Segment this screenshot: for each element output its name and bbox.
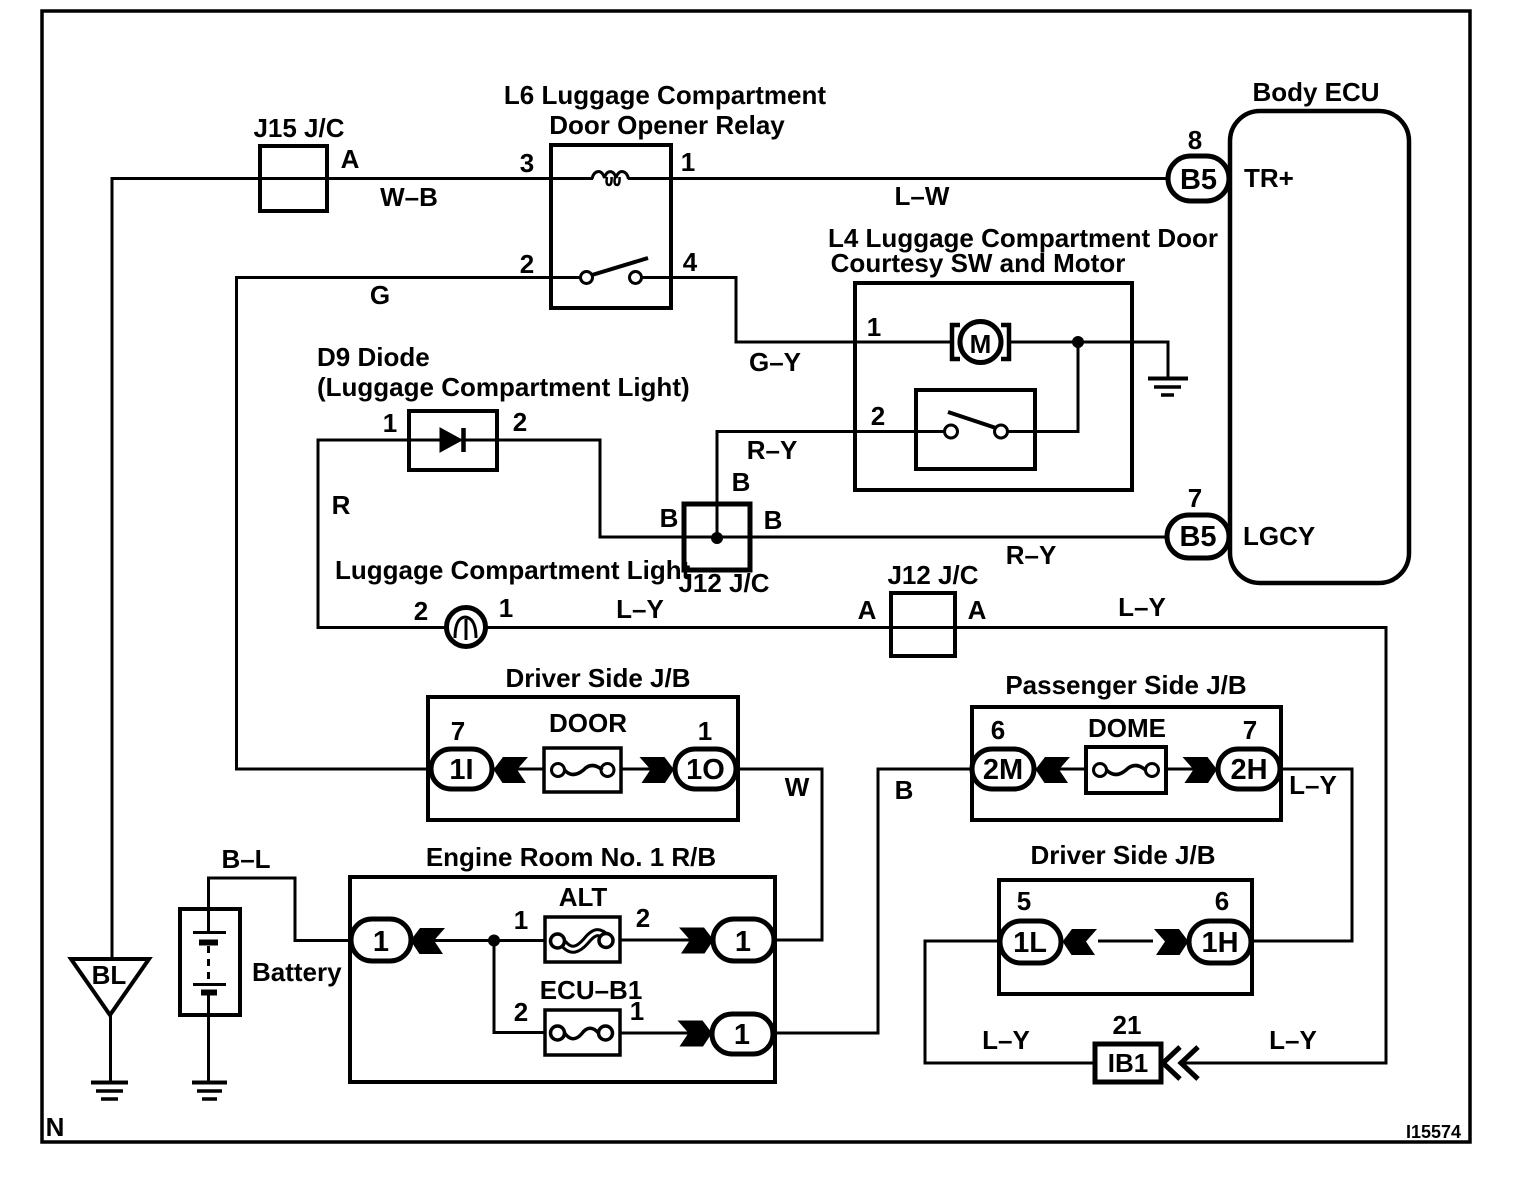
fuse DOME symbol <box>1094 764 1107 777</box>
svg-text:Battery: Battery <box>252 957 342 987</box>
wire inside J/B left <box>492 768 544 771</box>
svg-text:ECU–B1: ECU–B1 <box>540 975 643 1005</box>
svg-text:B: B <box>660 503 679 533</box>
fuse ALT symbol <box>563 933 607 950</box>
svg-text:Body ECU: Body ECU <box>1252 77 1379 107</box>
svg-text:G: G <box>370 280 390 310</box>
wire from junction down to courtesy switch <box>1077 342 1080 433</box>
wire from diode pin 2 <box>497 439 602 442</box>
motor M1 <box>960 322 1001 363</box>
svg-text:D9 Diode: D9 Diode <box>317 342 430 372</box>
svg-text:L–Y: L–Y <box>982 1025 1030 1055</box>
wire 1L to IB1 <box>927 940 1001 943</box>
component L4 Luggage Compartment Door Courtesy SW and Motor box <box>855 283 1132 490</box>
svg-text:B5: B5 <box>1180 164 1217 196</box>
svg-text:1: 1 <box>867 312 881 342</box>
relay coil <box>592 172 629 179</box>
svg-text:1: 1 <box>734 1019 750 1051</box>
junction J12 J/C (A) <box>891 593 955 656</box>
svg-text:2: 2 <box>513 407 527 437</box>
diode D9 box <box>409 411 497 470</box>
wire 1H to riser <box>1251 940 1354 943</box>
svg-text:5: 5 <box>1017 886 1031 916</box>
svg-text:M: M <box>970 329 992 359</box>
svg-text:B: B <box>764 505 783 535</box>
wire from arrow to ALT fuse <box>434 939 545 942</box>
connector oval B5 pin 8 TR+ <box>1168 156 1229 201</box>
courtesy switch box <box>916 390 1035 469</box>
svg-text:1: 1 <box>630 996 644 1026</box>
wire to IB1 <box>925 1062 1095 1065</box>
wire L-Y right riser down to IB1 <box>1385 626 1388 1065</box>
svg-text:Door Opener Relay: Door Opener Relay <box>549 110 785 140</box>
svg-text:2M: 2M <box>983 754 1023 786</box>
connector oval 1 ALT output <box>713 919 774 961</box>
svg-text:B: B <box>895 775 914 805</box>
svg-text:1: 1 <box>681 147 695 177</box>
svg-text:4: 4 <box>683 247 698 277</box>
svg-text:A: A <box>968 595 987 625</box>
node junction dot in J12 J/C <box>711 532 723 544</box>
wire BL apex to ground <box>109 1015 112 1081</box>
arrow right at 1O <box>640 757 675 783</box>
arrow left at 2M <box>1036 757 1071 783</box>
svg-text:21: 21 <box>1113 1010 1142 1040</box>
svg-text:LGCY: LGCY <box>1243 521 1315 551</box>
svg-text:R: R <box>332 490 351 520</box>
node junction dot motor/switch <box>1072 336 1084 348</box>
svg-text:L–Y: L–Y <box>1118 592 1166 622</box>
svg-text:Luggage Compartment Light: Luggage Compartment Light <box>335 555 691 585</box>
svg-text:2: 2 <box>514 997 528 1027</box>
svg-text:Driver Side J/B: Driver Side J/B <box>1031 840 1216 870</box>
arrow left at 1I <box>494 757 529 783</box>
fuse ALT box <box>545 917 620 962</box>
svg-text:1: 1 <box>698 716 712 746</box>
svg-text:B5: B5 <box>1179 521 1216 553</box>
wire inside passenger J/B left <box>1034 768 1086 771</box>
wire G horizontal to relay pin 2 <box>235 276 551 279</box>
svg-text:A: A <box>858 595 877 625</box>
svg-text:ALT: ALT <box>559 882 608 912</box>
svg-text:J12 J/C: J12 J/C <box>678 568 769 598</box>
svg-text:Driver Side J/B: Driver Side J/B <box>506 663 691 693</box>
wire into 1I <box>235 768 433 771</box>
wire G riser down to Driver Side J/B pin 7 <box>235 276 238 771</box>
junction block Passenger Side J/B box <box>972 707 1281 820</box>
battery <box>180 909 240 1015</box>
svg-text:J15 J/C: J15 J/C <box>253 113 344 143</box>
wire between arrows <box>1098 940 1153 943</box>
wire B-L battery to engine room <box>207 880 210 934</box>
svg-text:DOME: DOME <box>1088 713 1166 743</box>
ground symbol at BL <box>91 1081 128 1085</box>
diode D9 symbol <box>409 439 497 442</box>
courtesy switch contact circles <box>945 425 958 438</box>
arrow left at engine room input <box>411 928 446 954</box>
svg-text:2: 2 <box>414 596 428 626</box>
wire ECU-B1 to output <box>620 1032 712 1035</box>
arrow right at ALT output <box>679 928 714 954</box>
relay switch wire stubs <box>551 276 581 279</box>
svg-text:1O: 1O <box>686 754 725 786</box>
svg-text:2: 2 <box>520 249 534 279</box>
svg-text:1: 1 <box>735 926 751 958</box>
svg-text:1: 1 <box>499 593 513 623</box>
wire L-W from relay pin 1 to Body ECU TR+ <box>671 177 1168 180</box>
svg-text:3: 3 <box>520 148 534 178</box>
svg-text:8: 8 <box>1188 125 1202 155</box>
wire IB1 to L-Y riser <box>1181 1062 1386 1065</box>
ground symbol at L4 <box>1148 377 1188 381</box>
wire W-B left riser down to BL ground triangle <box>111 177 114 959</box>
svg-text:2: 2 <box>871 401 885 431</box>
arrow left at 1L <box>1063 929 1098 955</box>
svg-text:1L: 1L <box>1013 927 1047 959</box>
wire inside J/B right <box>621 768 675 771</box>
svg-text:J12 J/C: J12 J/C <box>887 560 978 590</box>
svg-text:Engine Room No. 1 R/B: Engine Room No. 1 R/B <box>426 842 716 872</box>
svg-text:L–W: L–W <box>895 181 950 211</box>
svg-text:DOOR: DOOR <box>549 708 627 738</box>
wire R riser to luggage light <box>317 439 320 630</box>
svg-text:L–Y: L–Y <box>1289 770 1337 800</box>
connector oval 2M <box>972 749 1034 789</box>
connector oval 1I <box>431 749 492 789</box>
junction J15 J/C <box>260 146 327 211</box>
svg-text:R–Y: R–Y <box>747 435 798 465</box>
svg-text:B: B <box>732 467 751 497</box>
wire R-Y from J12 J/C to Body ECU LGCY <box>750 536 1168 539</box>
lamp bulb symbol <box>447 608 486 647</box>
wire L4 pin 2 into switch <box>855 430 946 433</box>
svg-text:1: 1 <box>383 408 397 438</box>
svg-text:7: 7 <box>1243 715 1257 745</box>
wire riser 1L down <box>924 940 927 1065</box>
ECU Body ECU box <box>1230 111 1409 583</box>
connector oval 2H <box>1218 749 1280 789</box>
svg-text:BL: BL <box>92 960 127 990</box>
connector oval 1H <box>1189 921 1251 963</box>
wire W riser <box>821 768 824 942</box>
wire W from 1O <box>736 768 824 771</box>
fuse ECU-B1 symbol <box>551 1026 565 1040</box>
svg-text:G–Y: G–Y <box>749 347 801 377</box>
svg-text:L6 Luggage Compartment: L6 Luggage Compartment <box>504 80 826 110</box>
relay block Engine Room No. 1 R/B box <box>350 877 775 1082</box>
svg-text:6: 6 <box>1215 886 1229 916</box>
wire B from 2M <box>877 768 973 771</box>
arrow chevrons at IB1 <box>1163 1047 1180 1079</box>
wire battery to ground <box>207 995 210 1081</box>
svg-text:(Luggage Compartment Light): (Luggage Compartment Light) <box>317 372 690 402</box>
wire inside passenger J/B right <box>1166 768 1218 771</box>
ground symbol at battery <box>192 1081 227 1085</box>
wire G-Y into L4 pin 1 <box>735 341 951 344</box>
svg-text:7: 7 <box>1188 483 1202 513</box>
wire riser B-L down to ECU-B1 <box>493 941 496 1035</box>
svg-text:TR+: TR+ <box>1244 163 1294 193</box>
svg-text:7: 7 <box>451 716 465 746</box>
svg-text:W: W <box>785 772 810 802</box>
svg-text:2H: 2H <box>1230 754 1267 786</box>
junction block Driver Side J/B bottom box <box>999 880 1252 994</box>
connector oval 1 ECU-B1 output <box>712 1014 773 1054</box>
wire L-Y from 2H <box>1280 768 1354 771</box>
wire riser diode to B net <box>599 439 602 539</box>
fuse ECU-B1 box <box>545 1010 620 1055</box>
svg-text:1H: 1H <box>1201 927 1238 959</box>
svg-text:1I: 1I <box>449 754 473 786</box>
svg-text:6: 6 <box>991 715 1005 745</box>
wire riser 2H to 1H <box>1351 768 1354 943</box>
wire B to ECU-B1 output <box>773 1032 880 1035</box>
connector oval 1L <box>1000 921 1061 963</box>
svg-text:1: 1 <box>373 926 389 958</box>
wire ALT to output <box>620 939 713 942</box>
node junction dot B-L <box>488 935 500 947</box>
wire switch to junction riser <box>1006 430 1080 433</box>
wire into lamp pin 2 <box>317 626 448 629</box>
svg-text:A: A <box>341 144 360 174</box>
wire L-Y from J12 J/C A to right riser <box>891 626 1388 629</box>
svg-text:2: 2 <box>636 903 650 933</box>
svg-text:I15574: I15574 <box>1406 1122 1461 1142</box>
svg-text:R–Y: R–Y <box>1006 540 1057 570</box>
svg-text:L–Y: L–Y <box>1269 1025 1317 1055</box>
wire to ECU-B1 fuse <box>494 1031 545 1034</box>
relay coil wire stubs <box>551 177 593 180</box>
svg-text:IB1: IB1 <box>1108 1048 1148 1078</box>
wire from L4 motor to ground riser <box>1167 341 1170 378</box>
fuse DOME box <box>1086 747 1166 793</box>
arrow right at 2H <box>1183 757 1218 783</box>
arrow right at 1H <box>1154 929 1189 955</box>
relay switch contact circles <box>581 272 593 284</box>
arrow right at ECU-B1 output <box>678 1021 713 1047</box>
motor M1 wire through <box>1011 341 1168 344</box>
wire R-Y riser down to J12 J/C node <box>716 430 719 538</box>
wire G-Y riser <box>735 276 738 344</box>
wire L-Y from lamp pin 1 to J12 J/C A <box>485 626 891 629</box>
wire B into J12 J/C <box>599 536 685 539</box>
junction J12 J/C (B) <box>684 504 750 570</box>
relay switch blade <box>592 258 648 275</box>
svg-text:Passenger Side J/B: Passenger Side J/B <box>1005 670 1246 700</box>
connector IB1 box <box>1095 1044 1161 1082</box>
wire through J12 J/C B <box>684 536 750 539</box>
svg-text:N: N <box>46 1112 65 1142</box>
svg-text:Courtesy SW and Motor: Courtesy SW and Motor <box>831 248 1126 278</box>
connector oval 1 engine room input <box>351 919 411 961</box>
shield ground triangle BL <box>71 959 149 1015</box>
junction block Driver Side J/B top box <box>428 697 738 820</box>
courtesy switch blade <box>948 412 996 428</box>
connector oval 1O <box>675 749 736 789</box>
wire W-B horizontal from left riser to relay pin 3 <box>111 177 552 180</box>
fuse DOOR box <box>544 748 621 792</box>
wire R-Y from L4 pin 2 to J12 J/C <box>717 430 855 433</box>
svg-text:L–Y: L–Y <box>616 594 664 624</box>
wire B riser <box>877 768 880 1035</box>
wire G-Y from relay pin 4 <box>671 276 738 279</box>
wire W to ALT output <box>774 939 824 942</box>
svg-text:1: 1 <box>514 905 528 935</box>
wire into diode pin 1 <box>318 439 409 442</box>
fuse DOOR symbol <box>552 764 565 777</box>
svg-text:W–B: W–B <box>380 182 438 212</box>
connector oval B5 pin 7 LGCY <box>1167 515 1229 558</box>
svg-text:B–L: B–L <box>221 844 270 874</box>
relay L6 Luggage Compartment Door Opener Relay box <box>551 145 671 308</box>
